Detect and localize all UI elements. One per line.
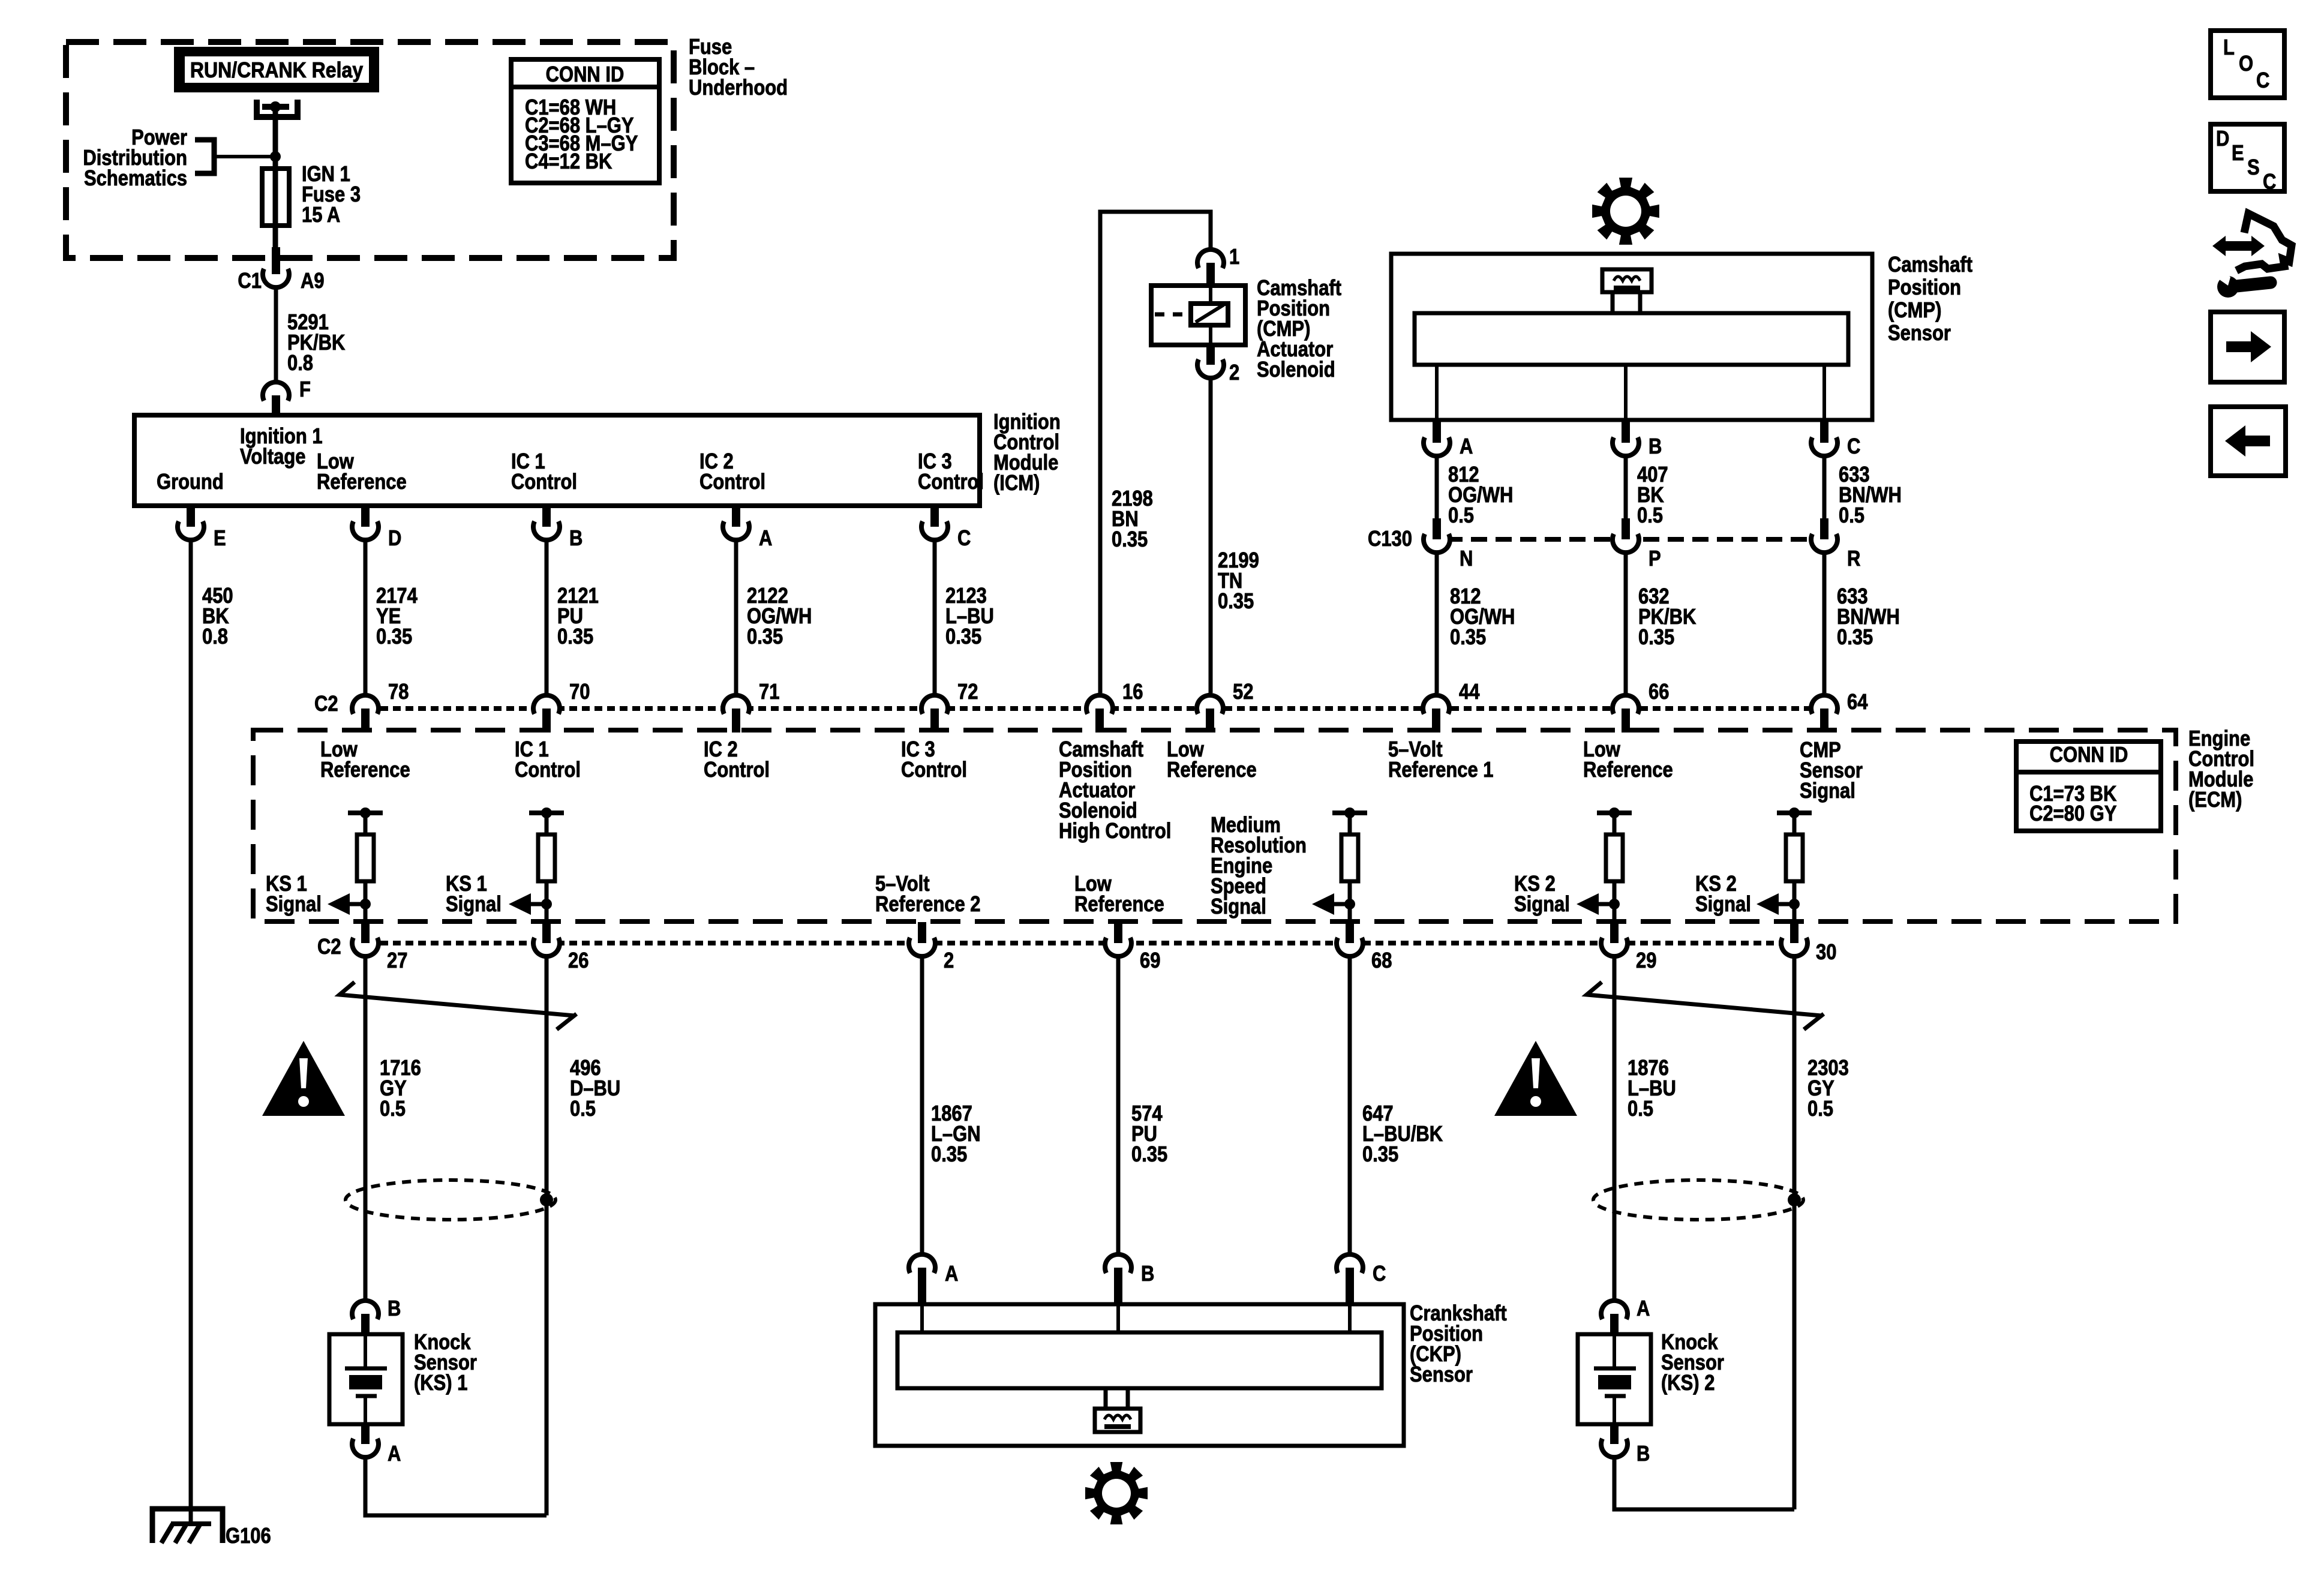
label: IC 1 Control (ICM): [511, 450, 577, 494]
svg-text:Ground: Ground: [157, 470, 224, 494]
ECM C2 pin 68: [1337, 922, 1363, 956]
svg-text:Signal: Signal: [1211, 895, 1266, 919]
svg-text:Control: Control: [704, 758, 770, 782]
wire below C130 pin P: [1624, 553, 1628, 693]
svg-text:C: C: [957, 527, 971, 551]
connector C1 pin A9: [263, 247, 289, 287]
label: C130: [1368, 527, 1412, 551]
connector pin A (CKP sensor): [909, 1254, 935, 1304]
ground symbol G106: [152, 1509, 223, 1543]
label: KS 1 Signal (pin 26): [446, 872, 502, 917]
svg-text:0.5: 0.5: [1839, 504, 1864, 528]
label: CMP Sensor Signal: [1800, 739, 1863, 803]
svg-text:(ICM): (ICM): [993, 472, 1040, 496]
svg-text:D: D: [388, 527, 401, 551]
CMP sensor internal wire A: [1435, 365, 1439, 420]
ECM C2 bottom dotted line: [355, 941, 1794, 945]
label: wire 1867 L-GN 0.35: [931, 1102, 981, 1167]
wire 574 PU 0.35: [1116, 956, 1121, 1254]
svg-text:C2=80 GY: C2=80 GY: [2029, 802, 2116, 826]
label: IC 1 Control (ECM): [515, 738, 581, 782]
label: fuse block connector IDs: [525, 96, 638, 174]
label: KS 1 Signal (pin 27): [266, 872, 322, 917]
wire 2121 PU 0.35: [545, 540, 549, 693]
label: pin 44: [1459, 680, 1480, 704]
wire 2174 YE 0.35: [364, 540, 368, 693]
svg-text:Reference: Reference: [1583, 758, 1673, 782]
svg-text:E: E: [2232, 142, 2244, 166]
wire: fuse to connector C1: [273, 226, 278, 247]
svg-text:Reference: Reference: [320, 758, 410, 782]
label: IC 2 Control (ICM): [699, 450, 765, 494]
CKP sensor outer box: [875, 1304, 1404, 1446]
svg-text:B: B: [1637, 1442, 1650, 1466]
wire 2122 OG/WH 0.35: [734, 540, 738, 693]
svg-text:0.5: 0.5: [1448, 504, 1474, 528]
label: IC 3 Control (ECM): [901, 738, 967, 782]
svg-text:C: C: [2263, 170, 2276, 194]
svg-text:Voltage: Voltage: [240, 445, 305, 469]
label: wire 5291 PK/BK 0.8: [287, 311, 345, 376]
svg-text:G106: G106: [226, 1524, 271, 1548]
label: Low Reference (ECM pin 69): [1074, 872, 1164, 917]
svg-text:70: 70: [569, 680, 590, 704]
wire: KS2 return loop: [1614, 1457, 1794, 1509]
label: 5-Volt Reference 2: [875, 872, 980, 917]
svg-text:A9: A9: [301, 269, 325, 293]
shield drain junction dot (KS1): [540, 1193, 553, 1206]
KS 2 signal arrow (pin 30): [1756, 893, 1800, 915]
relay contact symbol: [254, 100, 301, 117]
svg-text:0.8: 0.8: [287, 352, 313, 376]
CMP sensor internal wire B: [1624, 365, 1628, 420]
svg-text:Control: Control: [699, 470, 765, 494]
svg-text:Control: Control: [515, 758, 581, 782]
CMP sensor outer box: [1391, 254, 1872, 420]
CKP sensor inner bar: [897, 1332, 1382, 1388]
label: pin 72: [957, 680, 978, 704]
ECM C2 pin 64: [1811, 695, 1837, 733]
svg-text:P: P: [1649, 547, 1661, 571]
svg-text:B: B: [569, 527, 582, 551]
wire inside ECM to bottom edge at x=2991: [1792, 904, 1797, 922]
label: wire 2199 TN 0.35: [1218, 549, 1259, 614]
ECM C2 pin 71: [723, 695, 749, 733]
label: wire 2121 PU 0.35: [557, 584, 599, 649]
label: wire 633 BN/WH 0.35: [1837, 585, 1900, 650]
svg-text:27: 27: [387, 949, 407, 973]
svg-text:Reference 2: Reference 2: [875, 893, 980, 917]
crossover slash (KS2 pair): [1587, 982, 1824, 1029]
svg-text:69: 69: [1140, 949, 1160, 973]
svg-text:B: B: [1649, 435, 1662, 459]
wire 2198 BN 0.35 (solenoid pin 1 to ECM 16): [1100, 212, 1211, 693]
CMP sensor pin A: [1424, 420, 1450, 456]
wire 450 BK 0.8 (ground run to G106): [189, 540, 193, 1523]
icon: back arrow box: [2211, 407, 2286, 476]
icon: forward arrow box: [2211, 312, 2284, 382]
label: pin 70: [569, 680, 590, 704]
label: pin 52: [1233, 680, 1253, 704]
CKP internal wire B: [1116, 1304, 1120, 1332]
label: pin B (CMP sensor): [1649, 435, 1662, 459]
ECM CONN ID table: [2016, 742, 2161, 831]
svg-text:Reference: Reference: [317, 470, 407, 494]
label: Camshaft Position (CMP) Actuator Solenoid: [1257, 277, 1341, 382]
svg-text:L: L: [2223, 36, 2235, 60]
wire from CMP pin A: [1435, 456, 1439, 526]
wire 496 D-BU 0.5: [545, 956, 549, 1515]
label: C1=73 BK / C2=80 GY: [2029, 782, 2116, 826]
label: wire 2123 L-BU 0.35: [945, 584, 994, 649]
icon: DESC box: [2211, 124, 2284, 194]
label: wire 2174 YE 0.35: [376, 584, 418, 649]
svg-text:C1: C1: [238, 269, 262, 293]
svg-text:72: 72: [957, 680, 978, 704]
label: wire 2303 GY 0.5: [1807, 1056, 1849, 1121]
label: Power Distribution Schematics: [83, 126, 187, 191]
connector C130 pin R: [1811, 518, 1837, 553]
CKP sensor element: [1095, 1388, 1140, 1432]
label: pin 68: [1371, 949, 1392, 973]
svg-text:0.35: 0.35: [1638, 626, 1674, 650]
svg-text:Reference: Reference: [1167, 758, 1257, 782]
wire: relay to fuse: [273, 107, 278, 171]
label: CONN ID (fuse block): [546, 63, 624, 87]
label: KS 2 Signal (pin 30): [1695, 872, 1751, 917]
connector pin B (CKP sensor): [1105, 1254, 1131, 1304]
wire inside ECM to bottom edge at x=2250: [1348, 904, 1352, 922]
label: IC 3 Control (ICM): [918, 450, 984, 494]
svg-text:C: C: [1373, 1262, 1386, 1286]
svg-text:0.35: 0.35: [376, 625, 412, 649]
solenoid linkage dashes: [1155, 313, 1190, 317]
label: wire 407 BK 0.5: [1637, 463, 1668, 528]
svg-text:0.35: 0.35: [1218, 590, 1254, 614]
connector pin 2 (CMP actuator solenoid): [1197, 345, 1224, 378]
svg-text:C4=12 BK: C4=12 BK: [525, 150, 612, 174]
svg-text:29: 29: [1636, 949, 1656, 973]
resistor (KS2 pull-up, pin 30): [1777, 807, 1812, 904]
label: pin 2: [1229, 361, 1239, 385]
svg-text:CONN ID: CONN ID: [546, 63, 624, 87]
CMP sensor internal wire C: [1822, 365, 1826, 420]
ECM C2 pin 30: [1781, 922, 1807, 956]
label: pin P (C130): [1649, 547, 1661, 571]
label: C2 (bottom ECM connector): [317, 935, 341, 959]
svg-text:Schematics: Schematics: [84, 167, 187, 191]
CMP sensor pin C: [1811, 420, 1837, 456]
connector C130 dotted line: [1446, 537, 1824, 542]
svg-text:Reference 1: Reference 1: [1388, 758, 1493, 782]
svg-text:Position: Position: [1888, 276, 1961, 300]
svg-text:Control: Control: [918, 470, 984, 494]
label: wire 2198 BN 0.35: [1112, 487, 1153, 552]
svg-text:Signal: Signal: [1800, 779, 1855, 803]
CMP sensor element: [1602, 269, 1652, 313]
knock sensor KS1 box: [329, 1334, 403, 1424]
svg-text:66: 66: [1649, 680, 1669, 704]
label: Crankshaft Position (CKP) Sensor: [1410, 1302, 1507, 1387]
svg-text:O: O: [2239, 52, 2253, 76]
svg-text:(ECM): (ECM): [2188, 788, 2242, 812]
wire inside ECM to bottom edge at x=2691: [1613, 904, 1617, 922]
svg-text:Signal: Signal: [446, 893, 502, 917]
connector pin A (KS2): [1601, 1301, 1628, 1334]
KS 1 signal arrow (pin 26): [509, 893, 552, 915]
svg-text:N: N: [1460, 547, 1473, 571]
KS 2 signal arrow (pin 29): [1577, 893, 1620, 915]
svg-text:C130: C130: [1368, 527, 1412, 551]
label: pin D (ICM): [388, 527, 401, 551]
svg-text:0.35: 0.35: [1837, 626, 1873, 650]
svg-text:Control: Control: [511, 470, 577, 494]
label: IC 2 Control (ECM): [704, 738, 770, 782]
svg-text:2: 2: [944, 949, 954, 973]
shielded-cable ellipse (KS2 pair): [1593, 1180, 1803, 1220]
svg-text:52: 52: [1233, 680, 1253, 704]
svg-text:Underhood: Underhood: [689, 76, 788, 100]
connector pin A (KS1): [352, 1424, 379, 1457]
ECM: Engine Control Module dashed box: [253, 730, 2176, 921]
svg-text:A: A: [388, 1442, 401, 1466]
label: wire 2122 OG/WH 0.35: [747, 584, 812, 649]
svg-text:Signal: Signal: [266, 893, 322, 917]
solenoid coil symbol: [1191, 304, 1228, 325]
svg-text:0.5: 0.5: [1807, 1097, 1833, 1121]
svg-text:68: 68: [1371, 949, 1392, 973]
wire inside ECM to bottom edge at x=911: [545, 904, 549, 922]
svg-text:C: C: [2256, 69, 2269, 93]
ECM C2 pin 26: [533, 922, 560, 956]
ECM C2 pin 44: [1423, 695, 1449, 733]
label: pin 1: [1229, 245, 1239, 269]
svg-text:Solenoid: Solenoid: [1257, 358, 1335, 382]
label: pin 29: [1636, 949, 1656, 973]
crossover slash (KS1 pair): [340, 982, 577, 1029]
label: pin B (KS2): [1637, 1442, 1650, 1466]
wire 5291 PK/BK 0.8: [274, 287, 278, 382]
label: Knock Sensor (KS) 2: [1661, 1331, 1724, 1395]
svg-text:Control: Control: [901, 758, 967, 782]
svg-text:0.35: 0.35: [1450, 626, 1486, 650]
label: pin E (ICM): [214, 527, 226, 551]
label: Knock Sensor (KS) 1: [414, 1331, 477, 1395]
svg-text:1: 1: [1229, 245, 1239, 269]
connector C130 pin P: [1613, 518, 1639, 553]
wire 2303 GY 0.5: [1792, 956, 1797, 1509]
label: pin 30: [1816, 941, 1836, 965]
ECM C2 pin 29: [1601, 922, 1628, 956]
crankshaft gear icon: [1085, 1462, 1148, 1524]
svg-text:Signal: Signal: [1514, 893, 1570, 917]
solenoid internal wire: [1209, 286, 1212, 345]
shield drain junction dot (KS2): [1788, 1193, 1801, 1206]
wire 1876 L-BU 0.5: [1613, 956, 1617, 1301]
svg-text:0.5: 0.5: [1628, 1097, 1653, 1121]
svg-text:15 A: 15 A: [302, 203, 340, 227]
label: Fuse Block - Underhood: [689, 35, 788, 100]
svg-text:0.35: 0.35: [557, 625, 593, 649]
label: Low Reference (ECM pin 66): [1583, 738, 1673, 782]
svg-text:0.35: 0.35: [1131, 1143, 1167, 1167]
svg-text:E: E: [214, 527, 226, 551]
ICM pin E: [178, 506, 204, 540]
label: pin C (CMP sensor): [1847, 435, 1860, 459]
svg-text:16: 16: [1122, 680, 1143, 704]
label: Camshaft Position (CMP) Sensor: [1888, 253, 1972, 346]
ICM pin A: [723, 506, 749, 540]
CKP internal wire C: [1348, 1304, 1352, 1332]
label: Camshaft Position Actuator Solenoid High Control: [1059, 738, 1171, 843]
KS1 piezo element: [345, 1334, 387, 1424]
connector pin B (KS1): [352, 1301, 379, 1334]
svg-text:RUN/CRANK Relay: RUN/CRANK Relay: [190, 58, 363, 82]
wire below C130 pin R: [1822, 553, 1827, 693]
svg-text:S: S: [2247, 156, 2260, 180]
engine speed signal arrow (pin 68): [1312, 893, 1355, 915]
label: pin A (KS2): [1637, 1297, 1650, 1321]
svg-text:CONN ID: CONN ID: [2050, 743, 2128, 767]
svg-text:B: B: [1141, 1262, 1154, 1286]
ECM C2 pin 2: [909, 922, 935, 956]
wire inside ECM to bottom edge at x=609: [364, 904, 368, 922]
label: Low Reference (ECM pin 78): [320, 738, 410, 782]
label: Low Reference (ICM): [317, 450, 407, 494]
label: C1: [238, 269, 262, 293]
svg-text:(KS) 2: (KS) 2: [1661, 1371, 1715, 1395]
label: CONN ID (ECM): [2050, 743, 2128, 767]
label: pin 64: [1847, 691, 1868, 715]
wire from CMP pin B: [1624, 456, 1628, 526]
svg-text:A: A: [945, 1262, 958, 1286]
svg-text:0.8: 0.8: [202, 625, 228, 649]
svg-text:0.35: 0.35: [945, 625, 981, 649]
wire 2123 L-BU 0.35: [933, 540, 937, 693]
CMP sensor pin B: [1613, 420, 1639, 456]
connector C130 pin N: [1424, 518, 1450, 553]
wire below C130 pin N: [1435, 553, 1439, 693]
label: wire 574 PU 0.35: [1131, 1102, 1167, 1167]
camshaft gear icon: [1592, 178, 1659, 245]
shielded-cable ellipse (KS1 pair): [346, 1180, 556, 1220]
svg-text:A: A: [759, 527, 772, 551]
svg-text:High Control: High Control: [1059, 819, 1171, 843]
label: pin C (ICM): [957, 527, 971, 551]
svg-text:(CMP): (CMP): [1888, 299, 1941, 323]
ECM C2 pin 70: [533, 695, 560, 733]
connector pin B (KS2): [1601, 1424, 1628, 1457]
wire 647 L-BU/BK 0.35: [1348, 956, 1352, 1254]
resistor (KS1 low ref pull-up, pin 26): [529, 807, 564, 904]
fuse block CONN ID table: [511, 59, 659, 183]
label: pin 66: [1649, 680, 1669, 704]
relay K: RUN/CRANK Relay box: [178, 51, 375, 88]
ECM C2 pin 69: [1105, 922, 1131, 956]
wire: KS1 return loop: [365, 1457, 547, 1515]
svg-text:Reference: Reference: [1074, 893, 1164, 917]
svg-text:Camshaft: Camshaft: [1888, 253, 1972, 277]
label: G106: [226, 1524, 271, 1548]
power distribution schematics bracket: [195, 140, 275, 173]
svg-text:44: 44: [1459, 680, 1480, 704]
label: wire 633 BN/WH 0.5: [1839, 463, 1902, 528]
resistor (engine speed signal pull-up, pin 68): [1332, 807, 1367, 904]
label: pin A (CKP): [945, 1262, 958, 1286]
label: Medium Resolution Engine Speed Signal: [1211, 813, 1307, 919]
label: wire 496 D-BU 0.5: [570, 1056, 620, 1121]
KS2 piezo element: [1594, 1334, 1636, 1424]
label: Ignition 1 Voltage: [240, 425, 323, 469]
label: A9: [301, 269, 325, 293]
label: pin A (KS1): [388, 1442, 401, 1466]
svg-text:0.5: 0.5: [380, 1097, 406, 1121]
label: pin B (KS1): [388, 1297, 401, 1321]
svg-text:0.5: 0.5: [1637, 504, 1663, 528]
ECM C2 pin 52: [1197, 695, 1223, 733]
svg-text:(KS) 1: (KS) 1: [414, 1371, 467, 1395]
fuse F3: IGN 1 Fuse 3 15 A: [262, 169, 289, 226]
connector pin F at ICM: [263, 382, 289, 415]
svg-text:26: 26: [568, 949, 588, 973]
connector pin 1 (CMP actuator solenoid): [1197, 250, 1224, 286]
wire 2199 TN 0.35 (solenoid pin 2 to ECM 52): [1209, 378, 1213, 693]
label: wire 450 BK 0.8: [202, 584, 233, 649]
label: pin A (ICM): [759, 527, 772, 551]
label: pin 78: [388, 680, 409, 704]
svg-text:C: C: [1847, 435, 1860, 459]
label: Ignition Control Module (ICM): [993, 410, 1061, 496]
label: pin 16: [1122, 680, 1143, 704]
svg-text:D: D: [2216, 127, 2229, 151]
label: pin A (CMP sensor): [1460, 435, 1473, 459]
ECM C2 top dotted line: [355, 706, 1824, 711]
ECM C2 pin 78: [352, 695, 379, 733]
label: wire 812 OG/WH 0.5: [1448, 463, 1513, 528]
label: C2 (top ECM connector): [314, 692, 338, 716]
svg-text:0.35: 0.35: [1362, 1143, 1398, 1167]
label: IGN 1 Fuse 3 15 A: [302, 163, 361, 227]
wire 1716 GY 0.5: [364, 956, 368, 1301]
ICM pin D: [352, 506, 379, 540]
fuse block - underhood (dashed box): [66, 42, 674, 258]
label: F: [299, 378, 311, 402]
svg-text:F: F: [299, 378, 311, 402]
label: wire 647 L-BU/BK 0.35: [1362, 1102, 1443, 1167]
svg-text:Sensor: Sensor: [1410, 1363, 1473, 1387]
label: wire 812 OG/WH 0.35: [1450, 585, 1515, 650]
label: wire 1716 GY 0.5: [380, 1056, 421, 1121]
ICM pin C: [921, 506, 948, 540]
svg-text:A: A: [1460, 435, 1473, 459]
svg-text:0.5: 0.5: [570, 1097, 596, 1121]
label: wire 1876 L-BU 0.5: [1628, 1056, 1676, 1121]
svg-text:A: A: [1637, 1297, 1650, 1321]
svg-text:Signal: Signal: [1695, 893, 1751, 917]
junction node (power distribution tap): [270, 151, 281, 162]
label: pin 26: [568, 949, 588, 973]
CMP actuator solenoid U1 box: [1151, 286, 1245, 345]
label: Engine Control Module (ECM): [2188, 727, 2254, 812]
label: pin 71: [759, 680, 779, 704]
wire 1867 L-GN 0.35: [920, 956, 924, 1254]
CKP internal wire A: [920, 1304, 924, 1332]
label: pin N (C130): [1460, 547, 1473, 571]
label: pin B (ICM): [569, 527, 582, 551]
label: pin 27: [387, 949, 407, 973]
icon: diagnostic tool (part outline, double arrow, wrench): [2212, 214, 2292, 298]
label: pin B (CKP): [1141, 1262, 1154, 1286]
